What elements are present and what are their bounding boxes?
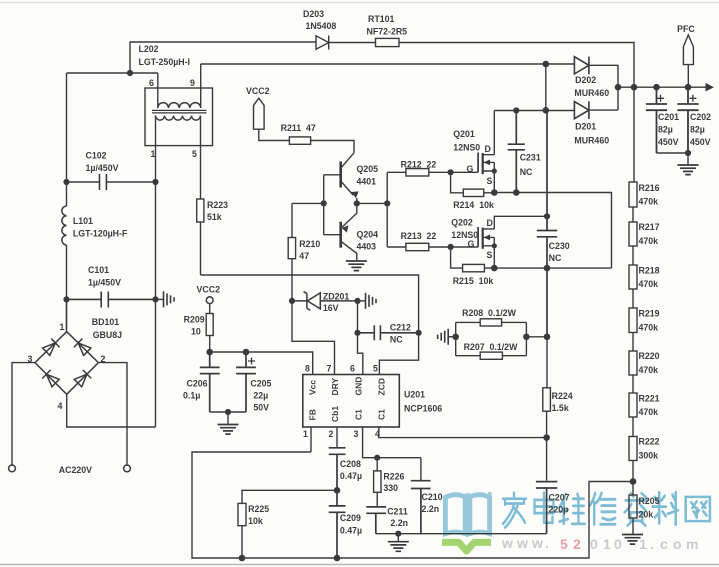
wire R210 top to base rail xyxy=(292,203,324,237)
junction C231 bottom xyxy=(513,189,520,196)
bridge rectifier BD101 xyxy=(35,332,98,395)
svg-text:MUR460: MUR460 xyxy=(574,88,609,98)
svg-text:R217: R217 xyxy=(639,222,660,232)
resistor R215 xyxy=(463,264,485,271)
svg-text:w: w xyxy=(516,535,528,551)
wire bulk cap commons xyxy=(657,152,689,154)
svg-text:C209: C209 xyxy=(340,513,361,523)
svg-text:1: 1 xyxy=(60,322,65,332)
svg-text:NC: NC xyxy=(390,335,403,345)
svg-text:R222: R222 xyxy=(639,437,660,447)
wire sense node R207/R208 xyxy=(448,322,547,355)
output arrowhead xyxy=(706,83,714,92)
resistor R223 xyxy=(197,199,204,222)
svg-text:R223: R223 xyxy=(207,200,228,210)
wire bridge pin3 to AC terminal xyxy=(12,363,35,465)
node A junction L202 input xyxy=(127,70,133,76)
svg-text:C205: C205 xyxy=(250,379,271,389)
svg-text:R213 22: R213 22 xyxy=(401,231,437,241)
svg-text:R214 10k: R214 10k xyxy=(453,200,494,210)
svg-text:5: 5 xyxy=(192,149,197,159)
capacitor C210 xyxy=(411,481,431,534)
wire D201 cathode up xyxy=(589,109,618,111)
wire pin9 rail to D202 xyxy=(546,63,575,65)
capacitor C212 xyxy=(358,325,419,340)
svg-text:R218: R218 xyxy=(639,266,660,276)
svg-text:R215 10k: R215 10k xyxy=(453,276,494,286)
wire R214 right to source row xyxy=(484,192,495,194)
svg-text:C1: C1 xyxy=(377,409,387,420)
svg-text:m: m xyxy=(686,536,698,552)
resistor R226 xyxy=(374,471,381,492)
svg-text:3: 3 xyxy=(28,354,33,364)
svg-text:C202: C202 xyxy=(690,112,711,122)
svg-text:4401: 4401 xyxy=(357,177,377,187)
wire L202 pin6 lead xyxy=(157,73,159,108)
svg-text:4403: 4403 xyxy=(357,242,377,252)
svg-text:330: 330 xyxy=(383,483,398,493)
transistor Q205 xyxy=(324,153,359,204)
IC U201 box xyxy=(303,375,400,428)
svg-text:300k: 300k xyxy=(639,451,659,461)
svg-text:VCC2: VCC2 xyxy=(246,86,270,96)
svg-text:1: 1 xyxy=(303,429,308,439)
ground at C205 C206 xyxy=(218,412,239,434)
junction driver output xyxy=(384,200,390,206)
svg-text:R211 47: R211 47 xyxy=(281,123,316,133)
wire L202 pin9 lead to rail xyxy=(201,64,546,108)
svg-text:R209: R209 xyxy=(184,315,205,325)
svg-text:1: 1 xyxy=(151,149,156,159)
wire L202 pin1 lead down to return rail xyxy=(155,116,157,182)
svg-text:7: 7 xyxy=(327,364,332,374)
resistor R225 xyxy=(238,503,246,525)
svg-text:R221: R221 xyxy=(639,394,660,404)
junction R226 top xyxy=(374,455,380,461)
junction output/C201 xyxy=(653,84,660,91)
resistor R218 xyxy=(629,265,637,289)
frame lines xyxy=(0,2,719,4)
wire source row Q201 xyxy=(494,193,611,269)
transistor Q204 xyxy=(324,203,357,261)
capacitor C211 xyxy=(366,507,386,534)
svg-text:Q204: Q204 xyxy=(357,230,379,240)
resistor R205 xyxy=(629,495,637,518)
MOSFET Q202 xyxy=(478,216,547,268)
wire gate to R215 xyxy=(451,247,463,268)
resistor R217 xyxy=(629,222,637,246)
svg-text:1: 1 xyxy=(603,536,611,552)
wire bridge pin2 to AC terminal xyxy=(98,363,127,465)
svg-text:NCP1606: NCP1606 xyxy=(404,404,442,414)
diode D201 xyxy=(574,101,589,119)
svg-text:0.47µ: 0.47µ xyxy=(340,526,362,536)
svg-text:1.5k: 1.5k xyxy=(552,403,569,413)
svg-text:470k: 470k xyxy=(639,407,659,417)
resistor R210 xyxy=(288,238,295,259)
svg-text:R207 0.1/2W: R207 0.1/2W xyxy=(464,342,518,352)
svg-text:3: 3 xyxy=(354,429,359,439)
svg-text:470k: 470k xyxy=(639,323,659,333)
resistor R208 xyxy=(480,319,501,326)
junction FB tap xyxy=(630,478,637,485)
VCC2 supply arrow (top) xyxy=(254,98,265,129)
resistor R224 xyxy=(543,388,551,411)
capacitor C230 xyxy=(537,111,557,337)
ground at Q204 collector xyxy=(346,261,367,271)
junction cap ground xyxy=(685,150,691,156)
svg-text:R208 0.1/2W: R208 0.1/2W xyxy=(462,308,516,318)
ground at ZD201 xyxy=(358,293,377,309)
junction Q201 source lead xyxy=(492,168,497,173)
svg-text:0: 0 xyxy=(614,536,622,552)
wire gate to R214 xyxy=(451,172,464,193)
svg-text:10: 10 xyxy=(191,327,201,337)
junction mid rail ground xyxy=(395,531,401,537)
wire output row xyxy=(618,86,707,88)
label U201 pin names top row xyxy=(308,377,387,422)
wire VCC2 to R209 to vcc rail xyxy=(209,304,211,352)
svg-text:MUR460: MUR460 xyxy=(574,136,609,146)
junction ZD201 gnd node xyxy=(354,298,360,304)
junction C102 left xyxy=(63,179,69,185)
svg-text:5: 5 xyxy=(373,364,378,374)
junction output/C202-PFC xyxy=(685,84,692,91)
svg-text:2: 2 xyxy=(329,429,334,439)
diode D202 xyxy=(574,57,589,75)
svg-text:G: G xyxy=(468,239,475,249)
wire R224 bottom / CS node xyxy=(546,411,548,481)
junction C212 left xyxy=(354,330,360,336)
svg-text:FB: FB xyxy=(308,409,318,420)
svg-text:C101: C101 xyxy=(88,265,109,275)
wire pin3 row to C210 xyxy=(377,458,421,481)
junction C212 right / ZCD column xyxy=(416,330,422,336)
svg-text:DRY: DRY xyxy=(330,378,340,396)
svg-text:RT101: RT101 xyxy=(368,14,395,24)
svg-text:470k: 470k xyxy=(639,236,659,246)
inductor L202 (transformer) xyxy=(145,88,213,146)
junction R215/source xyxy=(491,265,498,272)
resistor R214 xyxy=(463,189,483,196)
capacitor C205 xyxy=(236,352,256,412)
svg-text:D: D xyxy=(487,218,493,228)
wire pin3 stub xyxy=(363,427,377,458)
WATERMARK (drawn first, under circuit) xyxy=(442,492,710,552)
junction source row / sense column xyxy=(544,265,551,272)
svg-text:51k: 51k xyxy=(207,212,222,222)
junction C231 top on drain rail xyxy=(513,107,519,113)
svg-text:4: 4 xyxy=(58,401,63,411)
junction drain rail xyxy=(543,107,550,114)
junction output/R216 chain xyxy=(631,84,638,91)
svg-text:5: 5 xyxy=(560,536,568,552)
wire to R213 xyxy=(387,246,406,248)
wire C205 C206 commons xyxy=(210,411,246,413)
svg-text:NC: NC xyxy=(520,167,533,177)
wire driver output node xyxy=(357,172,387,247)
junction R207R208 right xyxy=(523,334,530,341)
zener ZD201 xyxy=(292,292,358,311)
wire bridge pin4 to return rail xyxy=(67,394,156,427)
ground at mid rail xyxy=(388,534,409,552)
junction C101 left xyxy=(63,296,69,302)
svg-text:LGT-120µH-F: LGT-120µH-F xyxy=(73,229,128,239)
svg-text:C1: C1 xyxy=(354,409,364,420)
resistor R220 xyxy=(629,351,637,375)
wire base rail xyxy=(323,175,325,235)
svg-text:C210: C210 xyxy=(422,492,443,502)
svg-text:D202: D202 xyxy=(575,75,596,85)
junction comp node xyxy=(334,487,341,494)
wire vcc rail to pin8 xyxy=(210,352,313,375)
wire R226 to C211 xyxy=(376,458,378,507)
svg-text:0: 0 xyxy=(590,536,598,552)
wire bridge pin1 up xyxy=(66,299,68,331)
wire R211 to Q205 collector xyxy=(311,141,354,153)
svg-text:1µ/450V: 1µ/450V xyxy=(86,163,119,173)
svg-text:R212 22: R212 22 xyxy=(401,160,437,170)
svg-text:C212: C212 xyxy=(390,323,411,333)
resistor R209 xyxy=(206,314,213,336)
junction vcc rail R209 xyxy=(206,349,213,356)
junction R207R208 left xyxy=(452,334,459,341)
svg-text:.: . xyxy=(650,536,654,552)
svg-text:C201: C201 xyxy=(658,112,679,122)
junction sense column xyxy=(544,334,551,341)
resistor R213 xyxy=(406,243,429,250)
wire gnd node to pin6 xyxy=(358,301,363,375)
AC terminal left xyxy=(9,465,16,472)
wire R210 bottom to ZD201 node (crosses ZCD line) xyxy=(291,259,293,301)
MOSFET Q201 xyxy=(478,111,494,193)
svg-text:C230: C230 xyxy=(549,241,570,251)
svg-text:R216: R216 xyxy=(639,183,660,193)
wire top rail from L202 node to bulk caps xyxy=(130,42,634,87)
svg-text:8: 8 xyxy=(305,364,310,374)
svg-text:C208: C208 xyxy=(340,459,361,469)
wire R215 right / source row Q202 xyxy=(484,267,611,269)
svg-text:9: 9 xyxy=(190,78,195,88)
resistor R221 xyxy=(629,393,637,417)
svg-text:Cb1: Cb1 xyxy=(330,406,340,422)
junction Q202 gate node xyxy=(448,244,454,250)
junction Q201 gate node xyxy=(448,169,454,175)
wire R213 to Q202 gate xyxy=(429,246,478,248)
svg-text:470k: 470k xyxy=(639,365,659,375)
junction R214/source xyxy=(491,189,498,196)
svg-text:R220: R220 xyxy=(639,351,660,361)
svg-text:o: o xyxy=(673,536,682,552)
svg-text:R210: R210 xyxy=(299,239,320,249)
svg-text:C211: C211 xyxy=(387,507,408,517)
junction C209 bottom xyxy=(334,555,341,562)
svg-text:c: c xyxy=(660,536,668,552)
svg-text:GBU8J: GBU8J xyxy=(93,330,122,340)
svg-text:Q202: Q202 xyxy=(451,218,473,228)
svg-text:R226: R226 xyxy=(383,472,404,482)
svg-text:G: G xyxy=(467,164,474,174)
wire return rail x155.5 xyxy=(155,182,157,427)
capacitor C206 xyxy=(200,352,220,412)
resistor R211 xyxy=(289,137,310,144)
wire L202 pin5 lead down to R223 xyxy=(200,116,202,199)
PFC supply arrow xyxy=(683,35,693,87)
svg-text:L202: L202 xyxy=(139,44,159,54)
ground at R205 xyxy=(622,535,643,545)
wire comp node to R225 xyxy=(242,490,337,503)
junction Q202 drain on C230 column xyxy=(544,213,550,219)
capacitor C201 xyxy=(646,87,667,153)
svg-text:LGT-250µH-I: LGT-250µH-I xyxy=(139,57,191,67)
wire left rail x66 xyxy=(66,73,68,329)
svg-text:BD101: BD101 xyxy=(92,317,119,327)
wire ZCD column to pin5 xyxy=(379,333,418,375)
svg-text:R224: R224 xyxy=(552,391,573,401)
wire mid ground rail xyxy=(376,533,547,535)
svg-text:12NS0: 12NS0 xyxy=(453,143,480,153)
junction C101 right / return ground node xyxy=(152,296,158,302)
wire R223 to ZCD long run xyxy=(201,222,419,333)
resistor R216 xyxy=(629,182,637,207)
svg-text:D201: D201 xyxy=(575,122,596,132)
svg-text:C102: C102 xyxy=(86,151,107,161)
junction cap ground node xyxy=(225,409,231,415)
resistor R212 xyxy=(406,169,429,176)
svg-text:450V: 450V xyxy=(690,137,711,147)
resistor R219 xyxy=(629,308,637,333)
capacitor C202 xyxy=(677,87,698,153)
ground at sense resistors xyxy=(438,329,457,345)
svg-text:L101: L101 xyxy=(73,216,93,226)
wire R212 to Q201 gate xyxy=(429,171,478,173)
svg-text:AC220V: AC220V xyxy=(59,465,92,475)
wire sense node to R224 xyxy=(546,337,548,388)
terminal VCC2 (lower) xyxy=(206,297,213,304)
svg-text:D: D xyxy=(485,144,491,154)
svg-text:D203: D203 xyxy=(303,9,324,19)
svg-text:R219: R219 xyxy=(639,309,660,319)
svg-text:VCC2: VCC2 xyxy=(197,285,221,295)
svg-text:470k: 470k xyxy=(639,197,659,207)
svg-text:PFC: PFC xyxy=(677,24,695,34)
diode D203 xyxy=(316,36,329,50)
wire pin2 stub xyxy=(336,427,338,448)
svg-text:C206: C206 xyxy=(187,379,208,389)
wire boost node vertical xyxy=(545,64,547,110)
svg-text:C207: C207 xyxy=(549,493,570,503)
resistor R207 xyxy=(480,352,502,359)
junction driver emitters xyxy=(354,200,360,206)
svg-text:Q205: Q205 xyxy=(357,164,379,174)
svg-text:ZD201: ZD201 xyxy=(323,292,350,302)
wire pin1 stub xyxy=(310,427,312,452)
svg-text:1N5408: 1N5408 xyxy=(306,21,337,31)
wire DRV node to pin7 xyxy=(292,301,335,375)
inductor L101 xyxy=(62,206,67,245)
resistor R222 xyxy=(629,437,637,461)
junction R225 bottom xyxy=(239,555,246,562)
svg-text:16V: 16V xyxy=(323,303,339,313)
svg-text:Vcc: Vcc xyxy=(308,380,318,395)
svg-text:2.2n: 2.2n xyxy=(390,518,408,528)
svg-text:1µ/450V: 1µ/450V xyxy=(88,278,121,288)
svg-text:0.1µ: 0.1µ xyxy=(183,391,200,401)
thermistor RT101 xyxy=(376,38,400,46)
svg-text:47: 47 xyxy=(299,251,309,261)
svg-text:10k: 10k xyxy=(248,516,263,526)
wire to R212 xyxy=(387,171,406,173)
svg-text:2: 2 xyxy=(573,536,581,552)
wire R216 chain column xyxy=(633,87,634,534)
svg-text:U201: U201 xyxy=(404,390,425,400)
capacitor C207 xyxy=(536,482,557,534)
junction CS pin4 row xyxy=(543,434,550,441)
junction ZD201 DRV node xyxy=(289,298,295,304)
svg-text:0.47µ: 0.47µ xyxy=(340,471,362,481)
wire pin4 stub / CS row xyxy=(379,427,547,438)
svg-text:6: 6 xyxy=(149,78,154,88)
svg-text:450V: 450V xyxy=(658,137,679,147)
svg-text:C231: C231 xyxy=(520,153,541,163)
svg-text:NF72-2R5: NF72-2R5 xyxy=(367,27,408,37)
ground at bulk caps xyxy=(678,153,699,175)
svg-text:82µ: 82µ xyxy=(690,125,705,135)
ground at return rail xyxy=(156,291,175,307)
svg-text:6: 6 xyxy=(350,364,355,374)
svg-text:S: S xyxy=(487,250,493,260)
junction pin9 rail / boost node xyxy=(543,61,550,68)
svg-text:.: . xyxy=(545,535,549,551)
junction base rail / R210 xyxy=(321,200,327,206)
AC terminal right xyxy=(124,465,131,472)
wire R225 to bottom rail xyxy=(241,526,243,558)
svg-text:GND: GND xyxy=(354,377,364,396)
capacitor C102 xyxy=(67,174,156,190)
svg-text:50V: 50V xyxy=(253,403,269,413)
wire FB tap to bottom rail xyxy=(192,452,633,558)
svg-text:R205: R205 xyxy=(639,496,660,506)
svg-text:2.2n: 2.2n xyxy=(422,504,440,514)
svg-text:w: w xyxy=(531,535,543,551)
wire D202 cathode to output xyxy=(589,65,618,110)
svg-text:4: 4 xyxy=(375,429,380,439)
svg-text:Q201: Q201 xyxy=(453,129,475,139)
svg-text:w: w xyxy=(501,535,513,551)
junction output node D-cathodes xyxy=(615,84,622,91)
junction C102 right xyxy=(152,179,158,185)
svg-text:22µ: 22µ xyxy=(253,391,268,401)
wire drain rail xyxy=(494,110,574,112)
svg-text:470k: 470k xyxy=(639,279,659,289)
svg-text:20k: 20k xyxy=(639,510,654,520)
capacitor C231 xyxy=(508,111,525,193)
svg-text:2: 2 xyxy=(101,354,106,364)
junction C205 top xyxy=(243,349,250,356)
capacitor C101 xyxy=(67,292,156,308)
junction Q202 source lead xyxy=(492,243,497,248)
wire VCC2 arrow to R211 xyxy=(259,129,290,140)
svg-text:ZCD: ZCD xyxy=(377,378,387,395)
capacitor C208 xyxy=(329,448,346,491)
svg-text:S: S xyxy=(487,176,493,186)
svg-text:220p: 220p xyxy=(549,505,570,515)
svg-text:82µ: 82µ xyxy=(658,125,673,135)
wire left rail to L202 node xyxy=(67,72,158,74)
svg-text:NC: NC xyxy=(549,253,562,263)
svg-text:R225: R225 xyxy=(248,504,269,514)
capacitor C209 xyxy=(329,490,346,558)
